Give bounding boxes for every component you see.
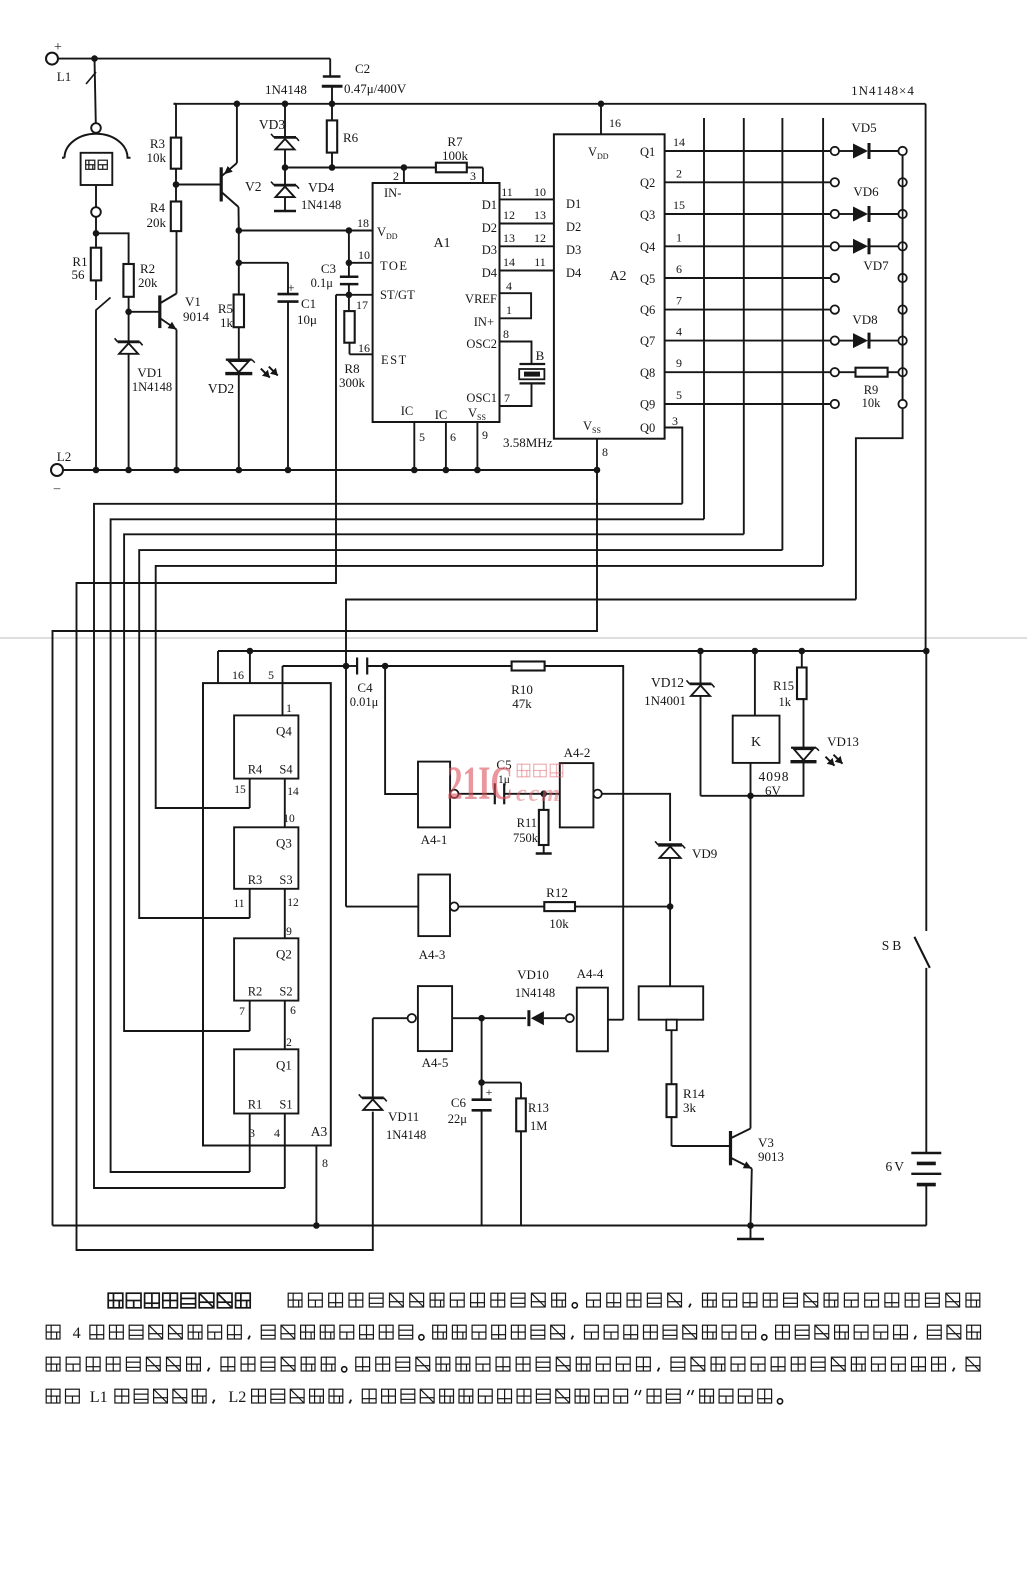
svg-text:R10: R10 — [511, 682, 533, 697]
diode column right terminals — [898, 147, 906, 155]
svg-text:D2: D2 — [566, 220, 581, 234]
hook switch below R1 — [95, 280, 97, 300]
svg-text:1k: 1k — [779, 695, 792, 709]
bus line4 wire (col3 to R3) — [139, 550, 782, 918]
resistor R3 — [174, 103, 177, 105]
svg-text:1N4148: 1N4148 — [386, 1128, 426, 1142]
wire V1 emitter to L2 rail — [176, 330, 178, 471]
svg-text:1: 1 — [506, 303, 512, 317]
svg-text:EST: EST — [381, 353, 408, 367]
svg-text:5: 5 — [268, 668, 274, 682]
svg-text:3: 3 — [470, 169, 476, 183]
svg-text:IN+: IN+ — [474, 315, 494, 329]
svg-text:9014: 9014 — [183, 309, 210, 324]
pin 2 stub of A1 — [403, 168, 405, 184]
wire R5 junction to C1 — [239, 262, 288, 264]
svg-text:OSC1: OSC1 — [466, 391, 497, 405]
svg-text:VD5: VD5 — [851, 120, 876, 135]
svg-text:D1: D1 — [566, 197, 581, 211]
D3 ladder wire — [500, 245, 554, 247]
wire V3 emitter to ground rail — [751, 1169, 752, 1226]
svg-text:7: 7 — [239, 1006, 245, 1018]
capacitor C1 — [287, 263, 289, 294]
junction on L1 wire — [91, 55, 98, 62]
svg-text:VD9: VD9 — [692, 846, 717, 861]
svg-text:R7: R7 — [447, 134, 463, 149]
relay power rail wire — [218, 650, 926, 652]
Q5 output wire with pin 6 — [665, 277, 831, 279]
capacitor C3 — [348, 231, 350, 277]
gate A4-3 — [418, 875, 450, 937]
svg-text:1N4001: 1N4001 — [644, 693, 686, 708]
A1 VREF pin4 to IN+ pin1 loop — [500, 293, 532, 318]
svg-text:R1: R1 — [248, 1098, 263, 1112]
wire R4 pin15 stub — [249, 779, 251, 808]
svg-text:R6: R6 — [343, 130, 359, 145]
svg-text:1k: 1k — [220, 315, 234, 330]
svg-text:VREF: VREF — [465, 292, 497, 306]
A3 pin5 wire to Q4 pin1 — [282, 666, 284, 715]
svg-text:750k: 750k — [513, 831, 539, 845]
svg-text:VD8: VD8 — [852, 312, 877, 327]
svg-text:R9: R9 — [864, 383, 879, 397]
wire VD12 bottom link — [701, 795, 805, 797]
svg-text:9: 9 — [286, 926, 292, 938]
svg-text:R4: R4 — [248, 763, 263, 777]
svg-text:D3: D3 — [566, 243, 581, 257]
A1 bottom pin 6 wire — [445, 422, 447, 470]
A1 pin10 TOE wire — [346, 260, 353, 267]
svg-text:L1: L1 — [90, 1388, 108, 1406]
wire C4 node down to A4-1 input — [385, 666, 418, 794]
matrix column 2 wire — [743, 118, 745, 534]
svg-text:10k: 10k — [549, 916, 569, 931]
svg-text:13: 13 — [534, 208, 546, 222]
svg-text:6V: 6V — [886, 1159, 907, 1174]
svg-text:S1: S1 — [279, 1098, 292, 1112]
crystal B with OSC pins — [500, 342, 532, 365]
line7 wire (diode column to A4-3 input / C4 node) — [346, 600, 856, 907]
svg-text:2: 2 — [286, 1037, 292, 1049]
svg-text:8: 8 — [602, 445, 608, 459]
svg-text:R12: R12 — [546, 885, 568, 900]
svg-text:OSC2: OSC2 — [466, 337, 497, 351]
svg-text:R2: R2 — [140, 261, 155, 276]
svg-text:VD1: VD1 — [137, 365, 162, 380]
svg-text:Q1: Q1 — [640, 145, 655, 159]
svg-text:–: – — [53, 480, 61, 495]
svg-text:11: 11 — [534, 255, 546, 269]
svg-text:D2: D2 — [482, 221, 497, 235]
svg-text:16: 16 — [232, 668, 244, 682]
svg-text:Q6: Q6 — [640, 303, 655, 317]
svg-text:+: + — [486, 1085, 493, 1099]
svg-text:14: 14 — [673, 135, 685, 149]
svg-text:2: 2 — [393, 169, 399, 183]
ground symbol — [750, 1226, 752, 1239]
resistor R9 — [839, 371, 856, 373]
svg-text:15: 15 — [673, 198, 685, 212]
svg-text:4: 4 — [676, 325, 682, 339]
L2 ground rail wire — [63, 469, 597, 471]
svg-text:D4: D4 — [566, 266, 582, 280]
diode VD7 — [839, 245, 853, 247]
svg-text:6: 6 — [676, 262, 682, 276]
resistor R4 — [171, 202, 181, 232]
svg-text:20k: 20k — [138, 275, 158, 290]
svg-text:9: 9 — [482, 428, 488, 442]
svg-text:R5: R5 — [218, 301, 233, 316]
bus line2 wire (col1 to R1) — [111, 519, 704, 1172]
resistor R1 — [95, 233, 97, 247]
svg-text:10: 10 — [358, 248, 370, 262]
svg-text:VD3: VD3 — [259, 117, 285, 132]
svg-text:C1: C1 — [301, 296, 316, 311]
svg-text:Q3: Q3 — [276, 835, 292, 850]
svg-text:10: 10 — [534, 185, 546, 199]
pin 3 stub of A1 — [482, 168, 484, 184]
diode VD11 — [362, 1097, 384, 1100]
svg-text:1N4148: 1N4148 — [515, 986, 555, 1000]
svg-text:9: 9 — [676, 356, 682, 370]
svg-text:A4-2: A4-2 — [564, 745, 591, 760]
svg-text:D4: D4 — [482, 266, 498, 280]
svg-text:IC: IC — [401, 404, 414, 418]
wire junction to R2 top — [96, 233, 129, 264]
Q9 output wire with pin 5 — [665, 403, 831, 405]
capacitor C6 — [481, 1018, 483, 1082]
wire V2 collector down — [238, 207, 240, 231]
svg-text:VD7: VD7 — [863, 258, 889, 273]
svg-text:R14: R14 — [683, 1086, 705, 1101]
svg-text:C2: C2 — [355, 61, 370, 76]
wire battery to bottom rail — [925, 1185, 927, 1226]
svg-text:C3: C3 — [321, 261, 336, 276]
svg-text:R4: R4 — [150, 200, 166, 215]
svg-text:R3: R3 — [248, 873, 263, 887]
IC A1 box — [373, 183, 500, 422]
wire R14 to V3 base — [672, 1145, 730, 1147]
svg-text:3k: 3k — [683, 1100, 697, 1115]
wire diode column down to line7 — [856, 408, 903, 599]
svg-text:10μ: 10μ — [297, 312, 317, 327]
svg-text:1: 1 — [676, 230, 682, 244]
svg-text:12: 12 — [287, 897, 299, 909]
Q7 output wire with pin 4 — [665, 340, 831, 342]
caption line 1 — [108, 1293, 123, 1308]
svg-text:16: 16 — [609, 116, 621, 130]
wire Vdd line to A1 pin18 — [239, 230, 349, 232]
bus line1 wire (Q0 to S1) — [94, 504, 682, 1188]
latch Q2 box — [234, 938, 298, 1000]
diode VD12 — [697, 648, 704, 655]
matrix column 4 wire — [822, 118, 824, 566]
svg-text:12: 12 — [534, 231, 546, 245]
svg-text:300k: 300k — [339, 375, 366, 390]
svg-text:S3: S3 — [279, 873, 292, 887]
svg-text:R2: R2 — [248, 985, 263, 999]
svg-text:TOE: TOE — [380, 259, 409, 273]
wire SB to battery — [925, 968, 927, 1153]
svg-text:Q4: Q4 — [640, 240, 656, 254]
resistor R5 — [238, 263, 240, 295]
svg-text:A4-1: A4-1 — [421, 832, 448, 847]
svg-text:5: 5 — [419, 430, 425, 444]
svg-text:0.47μ/400V: 0.47μ/400V — [344, 81, 407, 96]
caption line 2 — [46, 1325, 60, 1339]
transistor V1 9014 — [129, 311, 160, 313]
wire L1 to C2 corner — [58, 58, 330, 60]
svg-text:IN-: IN- — [384, 186, 401, 200]
resistor R14 — [667, 1084, 677, 1117]
svg-text:9013: 9013 — [758, 1149, 784, 1164]
gate A4-4 — [566, 1014, 574, 1022]
svg-text:3: 3 — [249, 1126, 255, 1140]
diode VD6 — [839, 213, 853, 215]
svg-text:A4-3: A4-3 — [419, 947, 446, 962]
wire line7 to A4-3 input — [346, 906, 418, 908]
svg-text:R15: R15 — [773, 679, 794, 693]
resistor R7 — [436, 163, 467, 173]
terminal L1 — [46, 53, 58, 65]
LED VD2 — [238, 327, 240, 359]
wire S3 to Q2 pin9 — [284, 889, 286, 939]
svg-text:2: 2 — [676, 166, 682, 180]
svg-text:L2: L2 — [228, 1388, 246, 1406]
bus line5 wire (col4 to R4) — [156, 566, 823, 808]
svg-text:7: 7 — [676, 294, 682, 308]
Q4 output wire with pin 1 — [665, 245, 831, 247]
svg-text:R8: R8 — [344, 361, 359, 376]
D4 ladder wire — [500, 270, 554, 272]
svg-text:A1: A1 — [433, 236, 450, 251]
svg-text:A3: A3 — [311, 1124, 328, 1139]
svg-text:13: 13 — [503, 231, 515, 245]
matrix column 3 wire — [781, 118, 783, 550]
latch Q3 box — [234, 827, 298, 889]
A3 pin8 wire to ground rail — [315, 1146, 317, 1226]
svg-text:1: 1 — [286, 701, 292, 715]
relay coil K — [752, 648, 759, 655]
svg-text:22μ: 22μ — [448, 1112, 468, 1126]
svg-text:3: 3 — [672, 414, 678, 428]
svg-text:R13: R13 — [528, 1101, 549, 1115]
resistor R2 — [123, 264, 133, 297]
svg-text:10k: 10k — [862, 396, 882, 410]
top rail wire — [174, 103, 926, 105]
svg-text:8: 8 — [503, 327, 509, 341]
wire phone to R1 junction — [95, 217, 97, 234]
A1 ST/GT pin wire — [346, 292, 353, 299]
svg-text:S2: S2 — [279, 985, 292, 999]
svg-text:4: 4 — [73, 1324, 81, 1342]
svg-text:VD13: VD13 — [827, 734, 859, 749]
transistor V2 (PNP) — [176, 184, 221, 186]
D1 ladder wire — [500, 198, 554, 200]
svg-text:VD11: VD11 — [388, 1109, 419, 1124]
wire L1 junction down to phone — [95, 59, 96, 124]
svg-text:R11: R11 — [517, 816, 537, 830]
svg-text:VD4: VD4 — [308, 180, 334, 195]
A2 pin16 wire — [598, 101, 605, 108]
wire A4-4 output up to R10 node — [608, 1019, 623, 1021]
svg-text:VD10: VD10 — [517, 967, 549, 982]
bottom ground rail wire — [53, 1225, 927, 1227]
diode VD1 — [128, 312, 130, 342]
svg-text:Q2: Q2 — [276, 946, 292, 961]
svg-text:A4-5: A4-5 — [422, 1055, 449, 1070]
svg-text:A4-4: A4-4 — [577, 966, 604, 981]
svg-text:21IC: 21IC — [447, 757, 513, 810]
scan artifact gray rule — [0, 637, 1027, 639]
svg-text:Q7: Q7 — [640, 334, 655, 348]
wire collector junction down to R5 — [238, 231, 240, 263]
svg-text:K: K — [751, 735, 761, 750]
svg-text:14: 14 — [287, 786, 299, 798]
relay contact box — [639, 986, 704, 1019]
diode VD3 — [282, 101, 289, 108]
svg-text:Q8: Q8 — [640, 366, 655, 380]
matrix column 1 wire — [703, 118, 705, 519]
svg-text:L2: L2 — [57, 449, 71, 464]
svg-text:Q9: Q9 — [640, 398, 655, 412]
svg-text:IC: IC — [435, 408, 448, 422]
diode VD8 — [839, 340, 853, 342]
svg-text:20k: 20k — [147, 215, 167, 230]
svg-text:V3: V3 — [758, 1135, 774, 1150]
svg-text:VD12: VD12 — [651, 675, 684, 690]
svg-text:Q0: Q0 — [640, 421, 655, 435]
svg-text:1N4148: 1N4148 — [265, 82, 307, 97]
svg-text:1N4148×4: 1N4148×4 — [851, 83, 915, 98]
wire A4-5 output — [452, 1017, 482, 1019]
diode column right bus wire — [902, 155, 904, 400]
svg-text:4098: 4098 — [759, 769, 790, 784]
wire C5 to A4-2 input — [504, 793, 560, 795]
telephone (hua-ji) symbol — [91, 123, 101, 133]
wire R3 pin11 stub — [249, 889, 251, 918]
svg-text:Q2: Q2 — [640, 176, 655, 190]
gate A4-2 — [560, 763, 594, 827]
bus line3 wire (col2 to R2) — [124, 534, 744, 1031]
wire R2 to base junction — [128, 297, 130, 312]
svg-text:18: 18 — [357, 216, 369, 230]
wire VD11 top to A4-5 input — [373, 1017, 408, 1019]
svg-text:C4: C4 — [357, 680, 373, 695]
capacitor C5 — [494, 783, 496, 804]
wire V1 collector to R4 — [176, 231, 178, 293]
svg-text:15: 15 — [234, 784, 246, 796]
svg-text:VD2: VD2 — [208, 381, 234, 396]
svg-text:D1: D1 — [482, 198, 497, 212]
caption line 3 — [46, 1357, 60, 1371]
svg-text:1N4148: 1N4148 — [132, 380, 172, 394]
latch Q4 box — [234, 715, 298, 778]
svg-text:10: 10 — [283, 813, 295, 825]
wire S2 to Q1 pin2 — [284, 1001, 286, 1050]
wire V2 emitter up to top rail — [236, 104, 238, 163]
diode VD9 — [658, 843, 682, 846]
svg-text:1N4148: 1N4148 — [301, 198, 341, 212]
svg-text:Q1: Q1 — [276, 1057, 292, 1072]
capacitor C2 — [323, 75, 341, 77]
svg-text:V1: V1 — [185, 294, 201, 309]
Q8 output wire with pin 9 — [665, 371, 831, 373]
ST/GT bus wire to A4-5 via VD11 — [77, 295, 373, 1250]
svg-text:+: + — [54, 40, 62, 55]
svg-text:Q3: Q3 — [640, 208, 655, 222]
svg-text:D3: D3 — [482, 243, 497, 257]
IC A3 box — [203, 683, 331, 1145]
transistor V3 9013 — [729, 1131, 732, 1165]
wire V3 collector up to relay node — [750, 796, 752, 1129]
svg-text:S4: S4 — [279, 763, 293, 777]
Q1 output wire with pin 14 — [665, 150, 831, 152]
svg-text:8: 8 — [322, 1156, 328, 1170]
svg-text:10k: 10k — [147, 150, 167, 165]
caption line 4 — [46, 1389, 60, 1403]
gate A4-5 — [418, 986, 452, 1051]
svg-text:V2: V2 — [245, 179, 262, 194]
svg-text:Q5: Q5 — [640, 272, 655, 286]
A2 pin8 Vss wire — [596, 439, 598, 470]
wire contact to R14 — [671, 1030, 673, 1084]
resistor R10 wire — [385, 665, 512, 667]
ground link wire L2 to bottom rail — [53, 470, 598, 1226]
svg-text:L1: L1 — [57, 69, 71, 84]
svg-text:7: 7 — [504, 391, 510, 405]
wire A4-1 output to C5 — [459, 793, 495, 795]
IC A2 box — [554, 134, 665, 438]
resistor R12 wire — [458, 906, 544, 908]
wire R1 pin3 stub — [249, 1114, 251, 1173]
latch Q1 box — [234, 1049, 298, 1113]
svg-text:4: 4 — [506, 279, 512, 293]
LED VD13 — [791, 747, 816, 749]
Q3 output wire with pin 15 — [665, 213, 831, 215]
svg-text:6: 6 — [290, 1005, 296, 1017]
wire C6 node to R13 — [482, 1082, 521, 1084]
Q6 output wire with pin 7 — [665, 309, 831, 311]
D2 ladder wire — [500, 223, 554, 225]
svg-text:1M: 1M — [530, 1119, 547, 1133]
A1 bottom pin 5 wire — [413, 422, 415, 470]
svg-text:ST/GT: ST/GT — [380, 288, 415, 302]
svg-text:16: 16 — [358, 341, 370, 355]
svg-text:0.1μ: 0.1μ — [311, 276, 334, 290]
A1 pin18 wire — [346, 227, 353, 234]
svg-text:14: 14 — [503, 255, 515, 269]
resistor R8 — [348, 295, 350, 311]
svg-text:5: 5 — [676, 388, 682, 402]
svg-text:Q4: Q4 — [276, 723, 292, 738]
svg-text:C6: C6 — [451, 1095, 467, 1110]
right edge vertical wire from top rail — [925, 104, 927, 651]
diode VD10 — [482, 1017, 526, 1019]
diode VD4 — [284, 168, 286, 186]
svg-text:6: 6 — [450, 430, 456, 444]
wire S1 pin4 down — [284, 1114, 286, 1189]
Q2 output wire with pin 2 — [665, 181, 831, 183]
svg-text:3.58MHz: 3.58MHz — [503, 435, 553, 450]
svg-text:0.01μ: 0.01μ — [350, 695, 379, 709]
wire K bottom to node — [750, 763, 752, 796]
svg-text:+: + — [287, 280, 294, 295]
resistor R15 — [799, 648, 806, 655]
wire S4 to Q3 pin10 — [284, 779, 286, 828]
svg-text:VD6: VD6 — [853, 184, 879, 199]
capacitor C4 — [346, 665, 357, 667]
